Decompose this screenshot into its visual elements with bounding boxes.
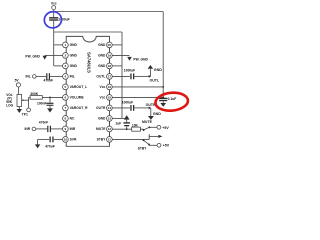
svg-text:STBY: STBY	[97, 138, 107, 142]
svg-text:+5V: +5V	[162, 126, 169, 130]
svg-text:20: 20	[108, 43, 112, 47]
svg-text:470nF: 470nF	[39, 121, 49, 125]
svg-text:6: 6	[65, 96, 67, 100]
svg-text:SA746ULS: SA746ULS	[87, 52, 92, 73]
svg-text:2: 2	[65, 54, 67, 58]
svg-text:15: 15	[108, 96, 112, 100]
svg-text:OUTL: OUTL	[150, 78, 160, 82]
svg-text:17: 17	[108, 75, 112, 79]
svg-text:INR: INR	[25, 127, 31, 131]
svg-text:1uF: 1uF	[115, 122, 121, 126]
svg-text:9: 9	[65, 127, 67, 131]
svg-text:PW_GND: PW_GND	[133, 58, 148, 62]
svg-text:VAROUT_R: VAROUT_R	[70, 106, 89, 110]
svg-text:12: 12	[108, 127, 112, 131]
svg-text:1000uF: 1000uF	[124, 68, 135, 72]
svg-text:MUTE: MUTE	[142, 120, 153, 124]
svg-text:8: 8	[65, 117, 67, 121]
svg-text:GND: GND	[98, 64, 106, 68]
svg-text:4: 4	[65, 75, 67, 79]
svg-text:+5V: +5V	[163, 144, 170, 148]
svg-text:GND: GND	[70, 54, 78, 58]
svg-text:INR: INR	[70, 127, 76, 131]
svg-text:INL: INL	[70, 75, 75, 79]
svg-text:14: 14	[108, 106, 112, 110]
svg-text:SVR: SVR	[70, 138, 77, 142]
svg-text:TP1: TP1	[22, 112, 28, 116]
svg-text:GND: GND	[98, 117, 106, 121]
svg-text:1000uF: 1000uF	[122, 100, 133, 104]
svg-text:INL: INL	[26, 75, 31, 79]
svg-text:LOG: LOG	[6, 104, 13, 108]
svg-text:10: 10	[64, 138, 68, 142]
svg-text:VOLUME: VOLUME	[70, 96, 85, 100]
svg-text:470nF: 470nF	[44, 79, 54, 83]
svg-text:Vcc: Vcc	[51, 2, 57, 6]
svg-text:19: 19	[108, 54, 112, 58]
svg-text:10K: 10K	[132, 124, 139, 128]
svg-text:PW_GND: PW_GND	[25, 54, 40, 58]
svg-text:OUTL: OUTL	[96, 75, 105, 79]
svg-text:MUTE: MUTE	[96, 127, 106, 131]
svg-text:7: 7	[65, 106, 67, 110]
svg-text:GND: GND	[153, 112, 161, 116]
svg-text:3: 3	[65, 64, 67, 68]
svg-text:5: 5	[65, 85, 67, 89]
svg-text:GND: GND	[98, 54, 106, 58]
svg-text:NC: NC	[70, 117, 75, 121]
svg-text:VAROUT_L: VAROUT_L	[70, 85, 88, 89]
svg-text:GND: GND	[70, 43, 78, 47]
svg-text:GND: GND	[154, 68, 162, 72]
svg-text:Vcc: Vcc	[100, 96, 106, 100]
svg-text:100nF: 100nF	[37, 102, 47, 106]
svg-text:0.1uF: 0.1uF	[168, 97, 177, 101]
svg-text:Vcc: Vcc	[100, 85, 106, 89]
svg-text:470uF: 470uF	[45, 145, 55, 149]
svg-text:300K: 300K	[30, 92, 39, 96]
svg-text:STBY: STBY	[138, 146, 148, 150]
svg-text:16: 16	[108, 85, 112, 89]
svg-text:GND: GND	[70, 64, 78, 68]
svg-text:1000uF: 1000uF	[58, 17, 69, 21]
svg-text:18: 18	[108, 64, 112, 68]
svg-text:13: 13	[108, 117, 112, 121]
svg-text:1: 1	[65, 43, 67, 47]
svg-text:GND: GND	[98, 43, 106, 47]
svg-text:OUTR: OUTR	[96, 106, 106, 110]
svg-text:11: 11	[108, 138, 112, 142]
